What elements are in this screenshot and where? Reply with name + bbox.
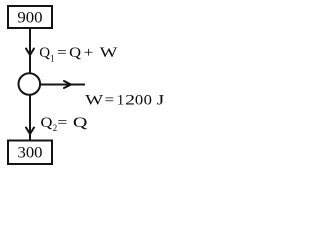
svg-text:=: = bbox=[105, 92, 115, 108]
label 300 bbox=[18, 145, 43, 162]
svg-text:1: 1 bbox=[117, 92, 125, 108]
svg-text:=: = bbox=[57, 45, 67, 61]
svg-text:Q: Q bbox=[73, 115, 88, 131]
svg-text:0: 0 bbox=[135, 92, 143, 108]
wire from engine circle to 300 box bbox=[29, 95, 31, 140]
svg-text:900: 900 bbox=[17, 10, 43, 27]
engine circle bbox=[19, 73, 41, 95]
svg-text:Q: Q bbox=[39, 45, 50, 61]
wire from 900 box to engine circle bbox=[29, 29, 31, 74]
svg-text:=: = bbox=[57, 115, 67, 131]
svg-text:300: 300 bbox=[18, 145, 43, 162]
label Q1 = Q + W bbox=[39, 45, 118, 63]
arrowhead down Q2 bbox=[26, 128, 34, 135]
svg-text:W: W bbox=[100, 45, 119, 61]
svg-text:Q: Q bbox=[69, 45, 81, 61]
label 900 bbox=[17, 10, 43, 27]
arrowhead down Q1 bbox=[26, 49, 34, 56]
label Q2 = Q bbox=[41, 115, 88, 133]
label W = 1200 J bbox=[85, 92, 164, 108]
svg-text:1: 1 bbox=[50, 53, 55, 63]
svg-text:2: 2 bbox=[125, 92, 135, 108]
svg-text:W: W bbox=[85, 92, 104, 108]
svg-text:J: J bbox=[157, 92, 165, 108]
svg-text:+: + bbox=[84, 45, 94, 61]
box hot reservoir 900 bbox=[8, 6, 52, 28]
svg-text:0: 0 bbox=[144, 92, 152, 108]
wire from engine circle to W output bbox=[41, 84, 85, 86]
svg-text:Q: Q bbox=[41, 115, 53, 131]
arrowhead right W bbox=[64, 81, 71, 88]
box cold reservoir 300 bbox=[8, 141, 52, 165]
